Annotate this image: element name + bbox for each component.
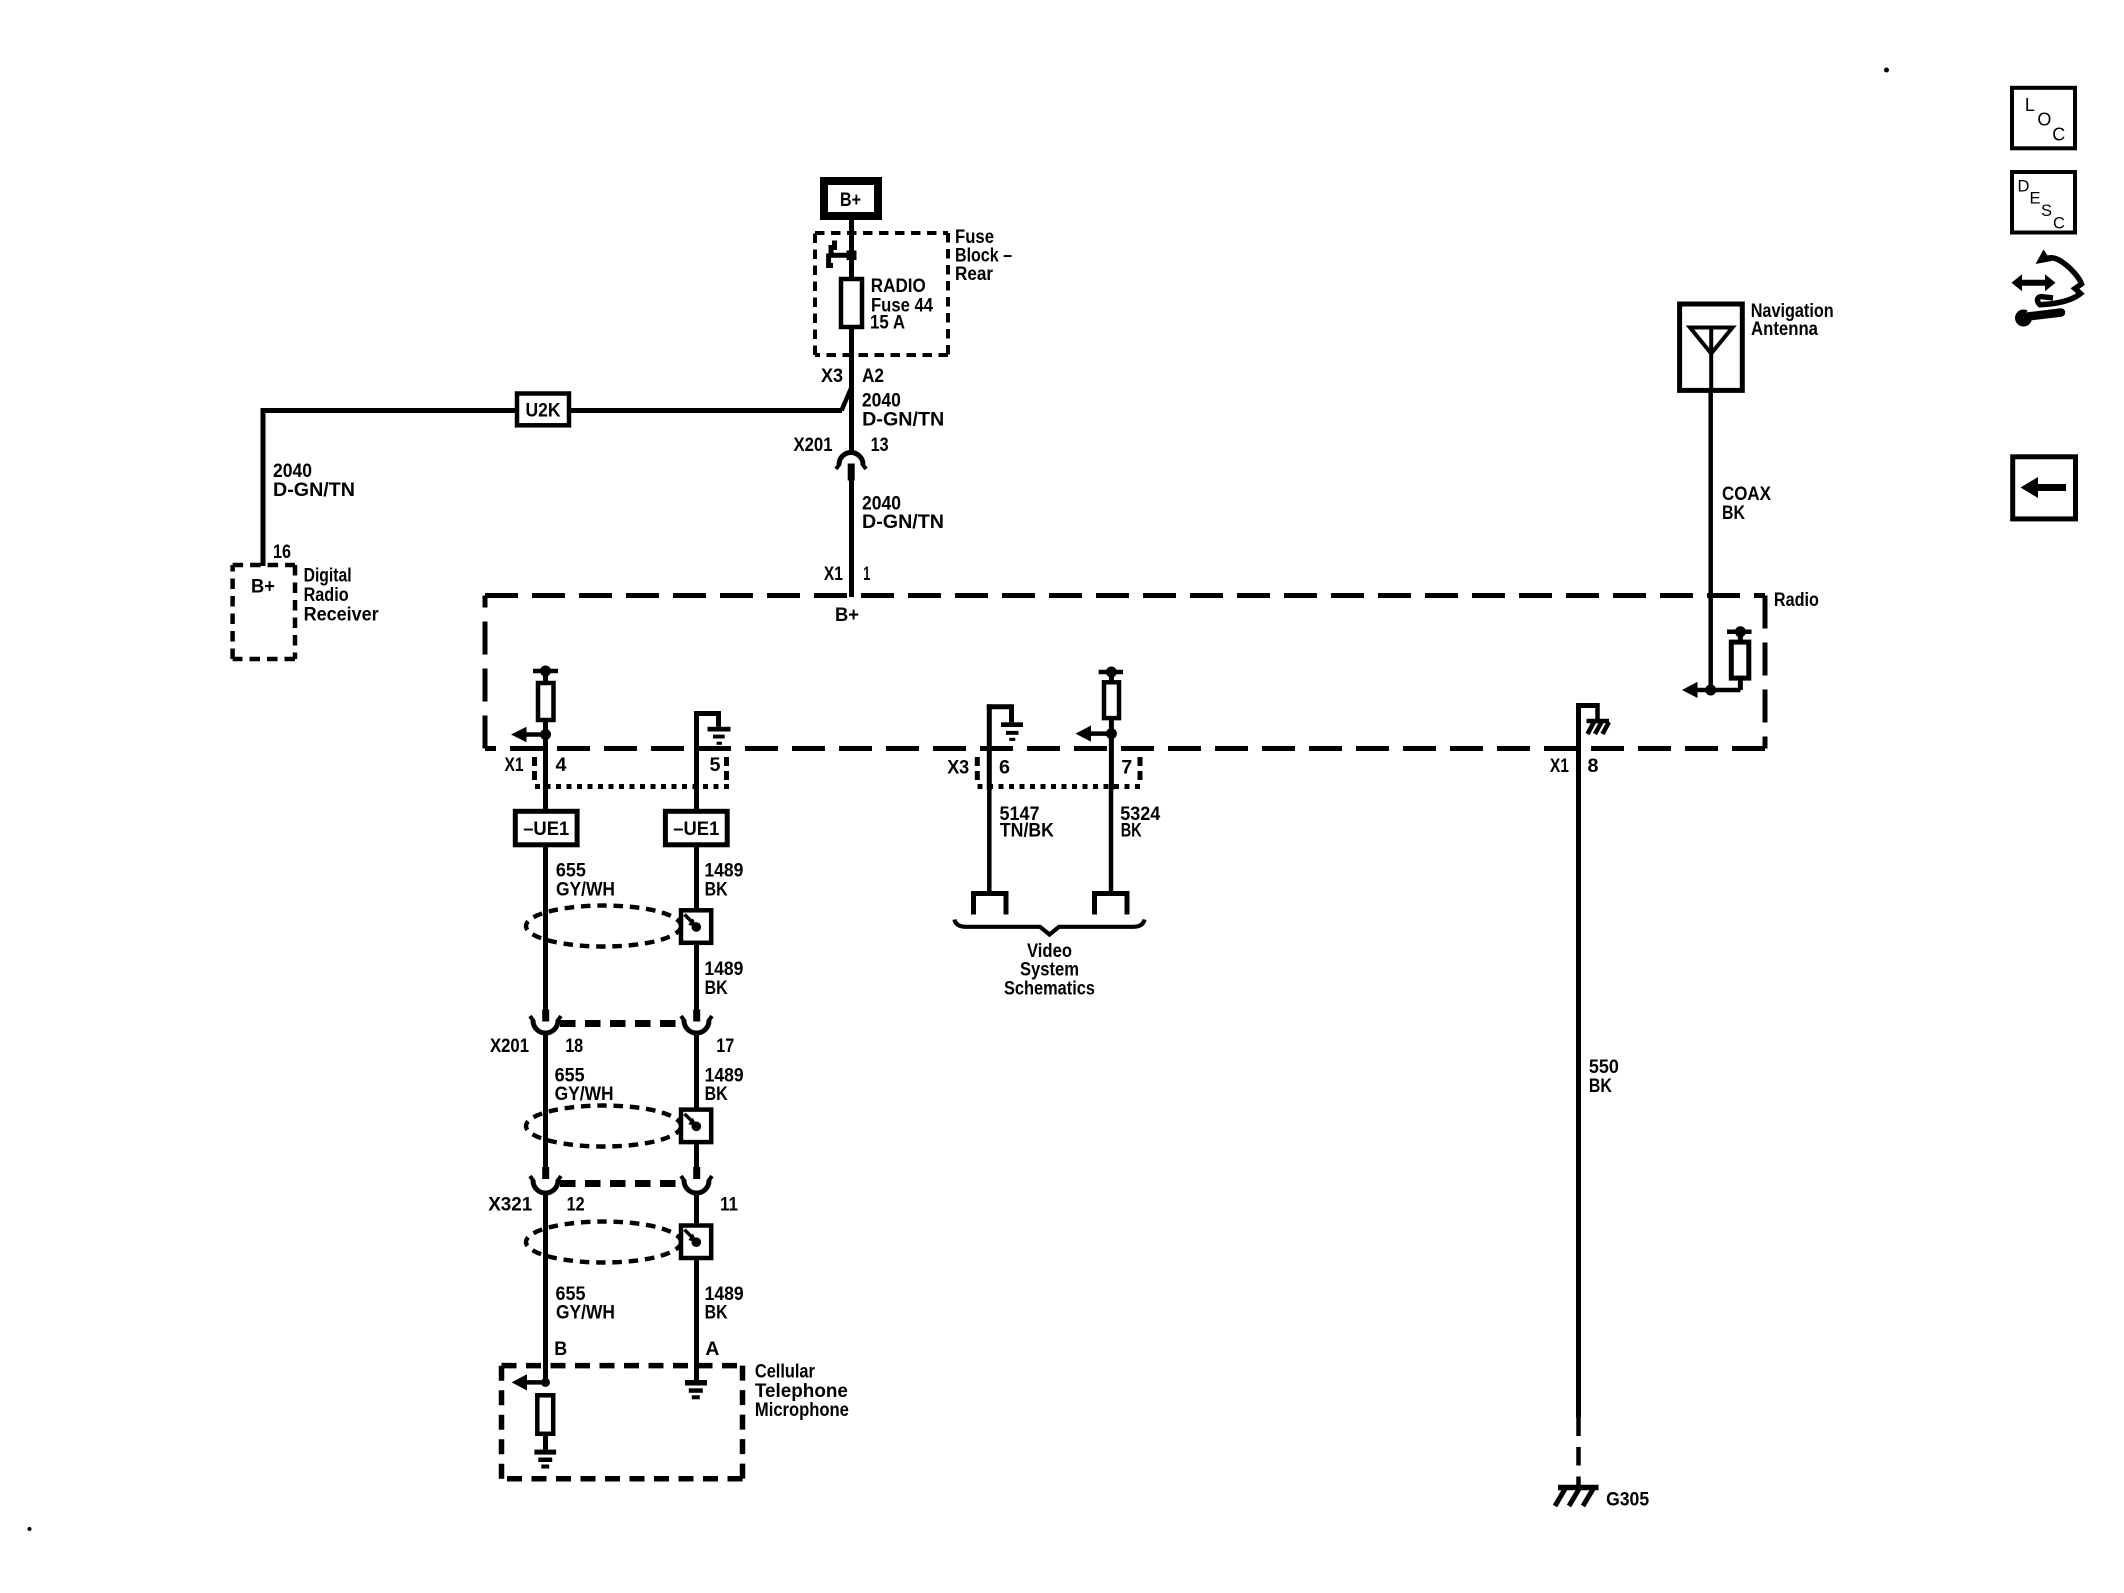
- shield drain box 3: [681, 1226, 711, 1259]
- wire label 2040 D-GN/TN left: [273, 461, 355, 501]
- wire 1489 segment 3: [694, 1193, 699, 1380]
- svg-text:D-GN/TN: D-GN/TN: [862, 409, 944, 430]
- radio dashed box: [485, 596, 1765, 749]
- video system brace: [955, 920, 1145, 935]
- wire inside fuse block: [849, 232, 854, 279]
- resistor assembly pin 4 (inside radio): [511, 666, 558, 758]
- svg-text:BK: BK: [705, 978, 728, 999]
- wire 1489 segment 1: [694, 845, 699, 1010]
- ground pin 5 (inside radio): [694, 711, 731, 758]
- wire label 655 GY/WH block C: [556, 1284, 616, 1324]
- connector repair icon: [2012, 250, 2082, 327]
- svg-text:7: 7: [1121, 758, 1132, 779]
- fuse RADIO Fuse 44 15A: [841, 279, 862, 327]
- left drop wire: [261, 408, 266, 566]
- wire fuse to junction: [849, 327, 854, 451]
- svg-text:A: A: [705, 1339, 719, 1360]
- wire pin5 to -UE1: [694, 757, 699, 811]
- svg-text:18: 18: [565, 1036, 583, 1057]
- terminal symbol pin 6: [974, 894, 1007, 915]
- svg-text:S: S: [2041, 202, 2052, 220]
- svg-text:B: B: [554, 1339, 567, 1360]
- wire 1489 segment 2: [694, 1033, 699, 1168]
- wire 655 segment 2: [543, 1033, 548, 1168]
- wire label 2040 D-GN/TN lower: [862, 493, 944, 533]
- svg-text:BK: BK: [1722, 503, 1745, 524]
- shield drain box 1: [681, 910, 711, 943]
- svg-text:X201: X201: [794, 435, 833, 456]
- svg-text:Cellular: Cellular: [755, 1362, 816, 1383]
- svg-text:G305: G305: [1606, 1490, 1649, 1511]
- ground pin 6 (inside radio): [987, 704, 1023, 790]
- svg-text:X321: X321: [488, 1195, 532, 1216]
- svg-text:E: E: [2030, 190, 2041, 208]
- male stub pin 13: [848, 464, 855, 481]
- wire label 1489 BK block B: [705, 1065, 744, 1105]
- svg-text:Receiver: Receiver: [304, 605, 380, 626]
- svg-text:X1: X1: [505, 755, 524, 776]
- shield drain box 2: [681, 1110, 711, 1143]
- svg-text:GY/WH: GY/WH: [556, 1303, 615, 1324]
- wire label 1489 BK block C: [705, 1284, 744, 1324]
- svg-text:6: 6: [999, 758, 1010, 779]
- svg-text:BK: BK: [705, 879, 728, 900]
- antenna symbol: [1690, 328, 1733, 391]
- wire to radio box: [849, 478, 854, 597]
- mic ground right (inside mic box): [685, 1380, 707, 1399]
- svg-text:Digital: Digital: [304, 565, 352, 586]
- digital radio receiver dashed box: [233, 565, 295, 659]
- svg-text:Microphone: Microphone: [755, 1400, 849, 1421]
- svg-text:17: 17: [716, 1036, 734, 1057]
- branch diagonal: [842, 387, 852, 411]
- svg-text:BK: BK: [705, 1084, 728, 1105]
- digital radio receiver label: [304, 565, 380, 625]
- navigation antenna label: [1751, 301, 1834, 340]
- -UE1 option box right: [665, 811, 727, 845]
- svg-text:O: O: [2037, 110, 2051, 130]
- wire label 5147 TN/BK: [1000, 804, 1055, 842]
- svg-text:GY/WH: GY/WH: [556, 879, 615, 900]
- page artifact dot bottom left: [28, 1527, 32, 1531]
- coax antenna input assembly (inside radio right): [1682, 390, 1752, 698]
- page artifact dot top right: [1884, 68, 1889, 73]
- wire label 5324 BK: [1120, 804, 1160, 842]
- svg-text:D-GN/TN: D-GN/TN: [273, 480, 355, 501]
- wire label 1489 BK mid: [704, 959, 743, 999]
- navigation antenna box: [1680, 304, 1743, 390]
- wire 5324 pin 7: [1109, 790, 1114, 891]
- -UE1 option box left: [515, 811, 577, 845]
- svg-text:BK: BK: [1121, 821, 1142, 842]
- svg-text:L: L: [2025, 95, 2035, 115]
- DESC legend box: [2012, 172, 2075, 233]
- svg-text:B+: B+: [251, 576, 275, 597]
- svg-text:X3: X3: [947, 758, 969, 779]
- terminal symbol pin 7: [1095, 894, 1128, 915]
- twisted pair ellipse 1: [526, 906, 681, 947]
- wire label 655 GY/WH block B: [555, 1065, 614, 1105]
- wire 655 segment 1: [543, 845, 548, 1010]
- svg-text:–UE1: –UE1: [523, 819, 569, 840]
- svg-text:4: 4: [556, 755, 567, 776]
- svg-text:B+: B+: [835, 605, 859, 626]
- svg-text:15 A: 15 A: [870, 313, 905, 334]
- svg-text:GY/WH: GY/WH: [555, 1084, 614, 1105]
- svg-text:X201: X201: [490, 1036, 529, 1057]
- svg-text:X1: X1: [824, 564, 843, 585]
- X3 connector dotted outline: [977, 757, 1141, 787]
- svg-text:C: C: [2052, 125, 2065, 145]
- svg-text:13: 13: [871, 435, 889, 456]
- svg-text:16: 16: [273, 542, 291, 563]
- U2K box: [517, 394, 569, 426]
- X321 inline connector pins 12,11: [542, 1167, 549, 1179]
- svg-text:5: 5: [710, 755, 721, 776]
- wire B+ to fuse block: [849, 220, 854, 232]
- svg-text:Antenna: Antenna: [1751, 319, 1818, 340]
- dashed wire to G305: [1576, 1418, 1581, 1487]
- svg-text:BK: BK: [1589, 1076, 1612, 1097]
- svg-text:X3: X3: [821, 366, 843, 387]
- svg-text:D-GN/TN: D-GN/TN: [862, 512, 944, 533]
- svg-text:RADIO: RADIO: [871, 276, 926, 297]
- coax label: [1722, 484, 1771, 524]
- cellular telephone microphone dashed box: [502, 1366, 743, 1479]
- fuse block label: [955, 227, 1012, 285]
- wire 550 BK pin 8 to ground: [1576, 750, 1581, 1418]
- twisted pair ellipse 3: [526, 1222, 681, 1263]
- svg-text:–UE1: –UE1: [673, 819, 719, 840]
- svg-text:1: 1: [863, 564, 870, 585]
- svg-text:D: D: [2018, 178, 2030, 196]
- LOC legend box: [2012, 88, 2075, 149]
- svg-text:8: 8: [1588, 756, 1599, 777]
- fuse block - rear dashed box: [815, 233, 948, 355]
- wire label 550 BK: [1589, 1057, 1619, 1097]
- G305 chassis ground: [1555, 1488, 1599, 1507]
- svg-text:12: 12: [567, 1195, 585, 1216]
- wire label 2040 D-GN/TN upper: [862, 391, 944, 431]
- X1 connector dotted outline: [535, 757, 730, 787]
- wire pin4 to -UE1: [543, 757, 548, 811]
- svg-text:Radio: Radio: [304, 585, 349, 606]
- svg-text:X1: X1: [1550, 756, 1569, 777]
- video system schematics label: [1004, 941, 1095, 999]
- svg-text:Rear: Rear: [955, 264, 994, 285]
- svg-text:BK: BK: [705, 1303, 728, 1324]
- svg-text:Telephone: Telephone: [755, 1381, 848, 1402]
- chassis ground pin 8 (inside radio): [1576, 703, 1609, 750]
- svg-text:B+: B+: [840, 190, 861, 211]
- wire 5147 pin 6: [987, 790, 992, 891]
- svg-text:A2: A2: [862, 366, 884, 387]
- fuse clip symbol: [829, 241, 855, 266]
- svg-text:Schematics: Schematics: [1004, 978, 1095, 999]
- svg-text:TN/BK: TN/BK: [1000, 821, 1054, 842]
- svg-text:550: 550: [1589, 1057, 1619, 1078]
- wire 655 segment 3: [543, 1193, 548, 1382]
- B+ power box: [824, 181, 878, 216]
- back arrow legend box: [2013, 457, 2076, 519]
- mic arrow + resistor + ground (inside mic box): [512, 1374, 557, 1468]
- X201 inline connector (cup down): [839, 453, 863, 465]
- resistor assembly pin 7 (inside radio): [1076, 667, 1124, 791]
- microphone label: [755, 1362, 849, 1422]
- wire label 1489 BK block A: [704, 861, 743, 901]
- X201 inline connector pins 18,17: [542, 1010, 549, 1022]
- svg-text:C: C: [2053, 215, 2065, 233]
- svg-text:Radio: Radio: [1774, 590, 1819, 611]
- horizontal wire to U2K and receiver: [263, 408, 517, 413]
- twisted pair ellipse 2: [526, 1106, 681, 1147]
- svg-text:U2K: U2K: [526, 401, 561, 422]
- wire label 655 GY/WH block A: [556, 861, 615, 901]
- svg-text:11: 11: [720, 1195, 738, 1216]
